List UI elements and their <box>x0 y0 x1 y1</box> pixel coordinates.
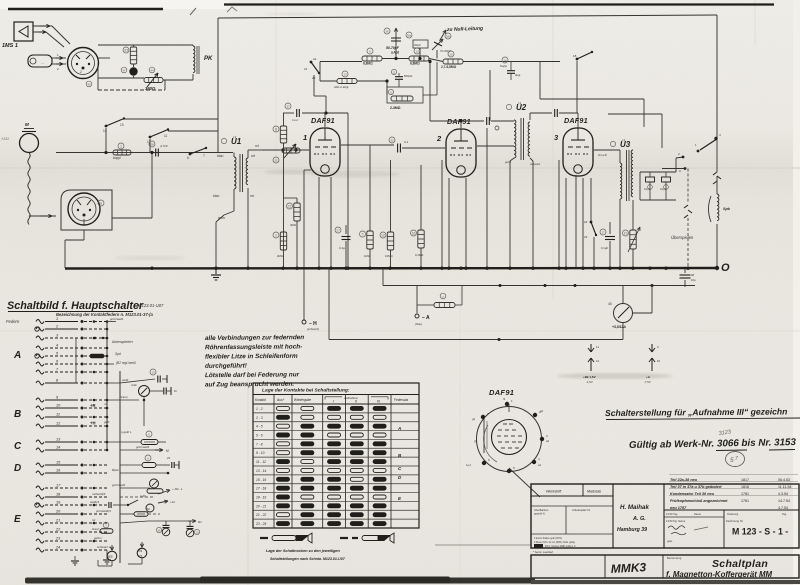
capacitor 37 grid cap <box>283 112 294 114</box>
svg-text:Aus*: Aus* <box>276 398 285 402</box>
connector plug P2 box <box>61 190 112 230</box>
svg-text:22: 22 <box>55 528 61 532</box>
svg-text:23 - 24: 23 - 24 <box>255 522 266 526</box>
svg-text:10: 10 <box>657 359 661 363</box>
svg-text:O: O <box>721 262 730 274</box>
svg-text:B: B <box>14 409 21 420</box>
svg-text:24: 24 <box>55 546 60 550</box>
ground symbol left <box>74 556 76 560</box>
svg-text:a1: a1 <box>538 463 542 467</box>
capacitor 36 trimmer <box>395 28 397 44</box>
svg-text:+3,5/12A: +3,5/12A <box>612 325 626 329</box>
revision history rows <box>670 478 791 510</box>
svg-text:PK: PK <box>204 56 213 62</box>
switch contact rows <box>35 317 107 552</box>
svg-text:0,1μF: 0,1μF <box>601 246 608 250</box>
svg-text:10: 10 <box>415 50 419 54</box>
svg-text:1MS 1: 1MS 1 <box>2 43 18 49</box>
svg-text:II: II <box>355 400 357 404</box>
svg-text:Ü3: Ü3 <box>620 140 631 149</box>
capacitor 28 <box>155 149 157 157</box>
svg-text:21: 21 <box>274 159 278 163</box>
svg-text:Lage der Schaltnocken zu den j: Lage der Schaltnocken zu den jeweiligen <box>266 549 341 553</box>
svg-text:+R: +R <box>90 403 95 408</box>
svg-text:+H: +H <box>90 421 95 426</box>
wire tube3 anode to U3 <box>594 149 620 151</box>
row13 resistor 6 <box>107 441 141 443</box>
svg-text:alle Verbindungen zur federnde: alle Verbindungen zur federnden <box>205 334 304 342</box>
switch S4 above tube1 <box>310 61 313 64</box>
sheet border top-left segment <box>8 8 163 11</box>
svg-text:0,1: 0,1 <box>404 140 409 144</box>
network top rail <box>98 44 193 46</box>
capacitor 47 electrolytic <box>129 67 137 75</box>
svg-text:geprüft N: geprüft N <box>534 512 545 516</box>
svg-text:(schwarz): (schwarz) <box>307 327 319 331</box>
svg-text:(B2 regl./weiß: (B2 regl./weiß <box>116 361 136 365</box>
capacitor 11 500pF <box>395 76 403 78</box>
wire tube1 anode row <box>325 112 348 114</box>
svg-text:12: 12 <box>596 359 600 363</box>
svg-text:4.7.54: 4.7.54 <box>778 506 788 510</box>
svg-text:D: D <box>14 463 21 474</box>
box 2-3M network <box>387 87 423 103</box>
svg-text:Änderung: Änderung <box>727 512 739 516</box>
svg-text:auf Zug beansprucht werden.: auf Zug beansprucht werden. <box>205 381 294 389</box>
capacitor 34 <box>649 172 651 177</box>
svg-text:6,8MΩ: 6,8MΩ <box>410 62 420 66</box>
wire box above tube3 <box>539 62 541 99</box>
svg-text:gelb L: gelb L <box>94 536 103 540</box>
svg-text:schwarz L: schwarz L <box>97 545 111 549</box>
microphone box 1MS1 <box>14 22 33 41</box>
wire from 1MS1 to connector <box>33 25 52 27</box>
svg-text:Name: Name <box>694 512 701 516</box>
svg-text:26: 26 <box>503 59 507 63</box>
vertical connector x107 <box>106 322 108 451</box>
svg-text:blau: blau <box>217 154 224 158</box>
svg-text:11 - 12: 11 - 12 <box>256 460 266 464</box>
svg-text:20: 20 <box>449 53 453 57</box>
svg-text:19: 19 <box>624 232 628 236</box>
svg-text:21: 21 <box>304 67 308 71</box>
svg-text:45: 45 <box>87 83 91 87</box>
cable to plug arrow <box>29 215 56 217</box>
resistor 2 koppl <box>113 150 131 155</box>
wire top loop vertical left <box>217 18 219 153</box>
svg-text:Schaltstellungen nach Schnia.: Schaltstellungen nach Schnia. M123.01-U0… <box>270 557 346 561</box>
wire plug P2 to ground bus <box>83 230 85 240</box>
resistor 7 grid leak <box>367 231 373 249</box>
wire from resistor row down x430 <box>429 62 431 122</box>
svg-text:13: 13 <box>151 371 155 375</box>
svg-text:M 123 - S - 1 -: M 123 - S - 1 - <box>732 527 788 537</box>
bus 2 below <box>383 285 695 287</box>
svg-text:A. G.: A. G. <box>632 516 646 522</box>
svg-text:4 - 5: 4 - 5 <box>256 425 263 429</box>
svg-text:R4: R4 <box>138 549 142 553</box>
svg-text:Spk: Spk <box>723 207 731 211</box>
wire contact 3 to U3 <box>662 168 684 170</box>
capacitor 38a 20pF <box>413 40 428 48</box>
wire tube1 top cap <box>324 113 326 127</box>
svg-text:Arbeitsplatz Nr: Arbeitsplatz Nr <box>572 508 590 512</box>
svg-text:grün/weiß(3: grün/weiß(3 <box>96 509 111 513</box>
wire row9 down to row12 <box>143 400 145 426</box>
svg-text:15 - 16: 15 - 16 <box>256 478 266 482</box>
svg-text:37: 37 <box>286 105 290 109</box>
svg-text:20 - 21: 20 - 21 <box>255 504 266 508</box>
microphone capsule <box>28 55 52 67</box>
transformer U3 <box>598 140 633 201</box>
svg-text:3 dunkl. Stellen gelb (2071): 3 dunkl. Stellen gelb (2071) <box>534 537 562 540</box>
wire plug P2 to signal rail <box>112 217 152 219</box>
svg-text:M: M <box>25 122 29 127</box>
svg-text:Maßstab: Maßstab <box>587 490 601 494</box>
tube2 grid cap capacitor <box>430 120 484 122</box>
svg-text:23: 23 <box>55 537 61 541</box>
svg-text:braun: braun <box>92 527 100 531</box>
tube Roe3 DAF91 <box>554 116 593 176</box>
svg-text:rot: rot <box>92 518 95 522</box>
svg-text:7: 7 <box>735 456 738 462</box>
wire speaker to O terminal <box>716 224 718 268</box>
svg-text:21 - 22: 21 - 22 <box>255 513 266 517</box>
svg-text:11: 11 <box>56 413 60 417</box>
svg-text:Tag: Tag <box>782 512 787 516</box>
svg-text:+Bk 1,5V: +Bk 1,5V <box>583 375 596 379</box>
meter lamp 40 <box>622 286 624 304</box>
svg-text:12: 12 <box>381 234 385 238</box>
svg-text:volle: volle <box>131 383 137 387</box>
svg-text:13 - 14: 13 - 14 <box>256 469 266 473</box>
bus O main ground rail <box>65 267 717 270</box>
row15 resistor <box>120 464 142 466</box>
output switch S7 <box>714 137 717 140</box>
svg-text:2-3MΩ: 2-3MΩ <box>390 106 401 110</box>
svg-text:MMK3: MMK3 <box>610 560 646 576</box>
svg-text:18: 18 <box>573 54 577 58</box>
svg-text:– A: – A <box>422 315 430 321</box>
row14 arrow M <box>120 449 160 451</box>
svg-text:10MΩ: 10MΩ <box>385 254 393 258</box>
wire S4 to grid cap <box>313 75 315 96</box>
shielded cable wavy <box>28 153 30 225</box>
svg-text:1761: 1761 <box>741 499 749 503</box>
fold line vertical <box>552 0 554 300</box>
connector plug P1 <box>68 48 99 79</box>
switch S1 contacts 14 13 <box>105 125 108 128</box>
svg-text:Zchn. Nocken MMK gültig n.V.: Zchn. Nocken MMK gültig n.V. <box>545 545 576 548</box>
svg-text:38: 38 <box>691 273 695 277</box>
resistor 9 6.8M <box>362 56 382 61</box>
capacitor 27 <box>345 225 347 234</box>
svg-text:Zeichnung Nr: Zeichnung Nr <box>726 519 743 523</box>
svg-text:1: 1 <box>303 133 307 142</box>
battery box outline <box>328 268 330 340</box>
svg-text:4: 4 <box>56 344 58 348</box>
svg-text:14.53 Fig. Name: 14.53 Fig. Name <box>666 519 686 523</box>
network mid rail <box>98 77 144 79</box>
resistor 22 <box>294 203 300 221</box>
svg-text:7 - 8: 7 - 8 <box>256 442 263 446</box>
jack contacts pair 2 <box>651 344 653 352</box>
svg-text:38a: 38a <box>407 34 412 38</box>
svg-text:23: 23 <box>584 235 588 239</box>
svg-text:14.53 Tag: 14.53 Tag <box>666 512 678 516</box>
svg-text:braun: braun <box>120 395 128 399</box>
tube Roe2 DAF91 <box>436 117 476 177</box>
svg-text:7,5: 7,5 <box>138 554 143 558</box>
resistor R4 loop <box>137 548 147 558</box>
svg-text:DAF91: DAF91 <box>447 117 471 126</box>
svg-text:Lage der Kontakte bei Schaltst: Lage der Kontakte bei Schaltstellung: <box>262 388 350 394</box>
DAF91 socket diagram <box>466 397 550 497</box>
svg-text:* bezw. Leerlauf: * bezw. Leerlauf <box>533 550 553 554</box>
svg-text:47: 47 <box>122 69 126 73</box>
svg-text:17 - 18: 17 - 18 <box>256 487 266 491</box>
svg-text:Spd: Spd <box>115 352 121 356</box>
resistor 12a <box>387 232 393 250</box>
potentiometer 360 Ohm <box>144 78 163 83</box>
svg-text:24: 24 <box>584 220 588 224</box>
svg-text:I: I <box>333 400 334 404</box>
svg-text:10μ: 10μ <box>691 278 696 282</box>
svg-text:4MΩ: 4MΩ <box>290 223 296 227</box>
svg-text:2 - 3: 2 - 3 <box>255 416 263 420</box>
wire U1 secondary to grid <box>247 150 249 158</box>
contact table <box>253 383 419 528</box>
svg-text:11: 11 <box>164 134 168 138</box>
wire tube2 filaments <box>448 178 450 268</box>
svg-text:†131: †131 <box>1 137 9 141</box>
jack contacts pair 1 <box>590 344 592 352</box>
wire x559 <box>558 160 560 268</box>
capacitor 35 <box>665 172 667 177</box>
wire x442 screen tube2 <box>441 160 443 268</box>
svg-text:28: 28 <box>150 143 154 147</box>
wire U3 left coil bottom <box>619 199 621 268</box>
check mark pencil <box>227 7 237 12</box>
svg-text:2: 2 <box>80 70 82 74</box>
connector plug P2 <box>68 193 100 225</box>
svg-text:überspielen: überspielen <box>112 339 133 344</box>
resistor 16 <box>418 230 424 248</box>
svg-text:R3: R3 <box>108 555 112 559</box>
svg-text:22: 22 <box>288 205 292 209</box>
svg-text:500pF: 500pF <box>404 74 413 78</box>
svg-text:...: ... <box>41 61 44 65</box>
svg-text:M: M <box>166 449 169 453</box>
svg-text:11: 11 <box>596 345 599 349</box>
resistor R3 loop <box>107 551 117 561</box>
svg-text:-7,5V: -7,5V <box>644 380 651 384</box>
svg-text:DAF91: DAF91 <box>489 388 514 397</box>
tube Roe1 DAF91 <box>303 116 340 176</box>
title block left cells <box>531 495 613 497</box>
wire tube1 filament left <box>318 177 320 268</box>
svg-text:9 - 10: 9 - 10 <box>256 451 265 455</box>
svg-text:0,2MΩ: 0,2MΩ <box>415 253 423 257</box>
svg-text:A: A <box>13 350 21 361</box>
svg-text:u.gelb L: u.gelb L <box>121 430 132 434</box>
svg-text:abgl: abgl <box>515 73 521 77</box>
svg-text:31: 31 <box>99 202 103 206</box>
svg-text:6,8MΩ: 6,8MΩ <box>363 62 373 66</box>
wire switch S1 to loop <box>124 118 218 120</box>
svg-text:20: 20 <box>55 510 61 514</box>
svg-text:Werkstoff: Werkstoff <box>546 490 562 494</box>
wire tube1 filament right <box>330 177 332 268</box>
resistor 33 <box>130 47 136 64</box>
resistor 1 cathode <box>280 232 286 250</box>
svg-text:Schalterstellung für „Aufnahme: Schalterstellung für „Aufnahme III“ geze… <box>605 406 788 418</box>
svg-text:R1: R1 <box>198 520 202 524</box>
svg-text:Aufnahme: Aufnahme <box>343 396 358 400</box>
svg-text:a.Nat: a.Nat <box>391 51 400 55</box>
svg-text:5 - 6: 5 - 6 <box>256 434 263 438</box>
wire top loop horizontal <box>218 15 717 18</box>
row1 label <box>107 321 116 323</box>
svg-text:4,7nF: 4,7nF <box>160 144 168 148</box>
svg-text:13: 13 <box>343 73 347 77</box>
svg-text:Abh.2 abgl: Abh.2 abgl <box>334 85 349 89</box>
wire caps to switch contact <box>675 158 677 172</box>
svg-text:(blau): (blau) <box>415 322 422 326</box>
svg-text:2 Diese Zchn. ist nur (2001) T: 2 Diese Zchn. ist nur (2001) Teilw. gült… <box>534 541 575 544</box>
sheet border top main <box>224 3 774 5</box>
potentiometer 21 <box>282 148 300 153</box>
wire screen vertical x348 <box>347 147 349 268</box>
wire top loop vertical right <box>716 15 718 139</box>
wire U2 primary bottom <box>510 158 514 161</box>
capsule leads <box>52 57 66 59</box>
svg-text:Facd: Facd <box>292 118 299 122</box>
title block frame <box>531 484 799 548</box>
svg-text:DAF91: DAF91 <box>564 116 588 125</box>
bottom title strip frame <box>531 555 799 578</box>
svg-text:gepr.: gepr. <box>667 539 673 543</box>
svg-text:32: 32 <box>390 139 394 143</box>
wire null-leitung arrow <box>440 30 446 40</box>
svg-text:C: C <box>14 441 22 452</box>
table legend symbols <box>260 537 268 539</box>
svg-text:50-70pF: 50-70pF <box>386 46 400 50</box>
svg-text:E: E <box>14 514 21 525</box>
svg-text:neu 1757: neu 1757 <box>670 506 687 510</box>
ground symbol <box>215 268 217 274</box>
svg-text:g3: g3 <box>474 439 478 443</box>
svg-text:Lötstelle darf bei Federung nu: Lötstelle darf bei Federung nur <box>205 371 300 379</box>
fold line horizontal <box>0 167 800 169</box>
svg-text:16: 16 <box>412 232 416 236</box>
svg-text:14.7.54: 14.7.54 <box>778 499 790 503</box>
svg-text:7: 7 <box>362 233 364 237</box>
capacitor 30 below bus <box>684 268 686 273</box>
faint line left of title block <box>435 544 531 546</box>
svg-text:A: A <box>397 426 401 431</box>
resistor 46 on -A branch <box>416 304 418 306</box>
svg-text:8: 8 <box>275 128 277 132</box>
svg-text:Hamburg 39: Hamburg 39 <box>617 527 647 533</box>
U3 secondary network box <box>640 171 676 173</box>
svg-text:a2: a2 <box>546 439 550 443</box>
svg-text:27: 27 <box>336 229 340 233</box>
svg-text:f. Magnetton-Koffergerät MM: f. Magnetton-Koffergerät MM <box>666 570 772 579</box>
svg-text:38b: 38b <box>446 35 451 39</box>
svg-text:33: 33 <box>124 49 128 53</box>
svg-text:schwarz: schwarz <box>530 162 541 166</box>
svg-text:14: 14 <box>56 446 60 450</box>
svg-text:weiß: weiß <box>122 378 129 382</box>
svg-text:Röhrenfassungsleiste mit hoch-: Röhrenfassungsleiste mit hoch- <box>205 343 302 351</box>
svg-text:Bezeichnung der Kontaktfedern: Bezeichnung der Kontaktfedern n. M123.01… <box>56 312 153 317</box>
svg-text:44: 44 <box>150 69 154 73</box>
svg-text:Prüfkopfanschluß angezeichnet: Prüfkopfanschluß angezeichnet <box>670 499 728 503</box>
note text block <box>205 334 304 388</box>
svg-text:5: 5 <box>730 457 734 464</box>
svg-text:+12: +12 <box>170 500 175 504</box>
vertical connector x120 <box>119 371 121 563</box>
network bottom rail <box>98 89 165 91</box>
svg-text:7: 7 <box>203 154 205 158</box>
svg-text:0,1μ: 0,1μ <box>339 246 345 250</box>
wire tube3 filaments <box>565 178 567 268</box>
svg-text:Schaltplan: Schaltplan <box>712 558 768 570</box>
lamp row9 <box>139 386 150 397</box>
resistor 13 abgl <box>337 79 357 84</box>
switch S6 24 23 <box>590 178 592 221</box>
svg-text:2,7-6,8MΩ: 2,7-6,8MΩ <box>441 65 457 69</box>
svg-text:2a: 2a <box>313 57 317 61</box>
svg-text:f+(1: f+(1 <box>466 463 471 467</box>
svg-text:g2: g2 <box>540 409 544 413</box>
svg-text:+ R2...L: + R2...L <box>172 487 183 491</box>
capacitor 32 coupling <box>397 144 399 153</box>
capacitor 17 <box>609 222 611 234</box>
terminal -H <box>302 320 306 324</box>
svg-text:Oberflächen-: Oberflächen- <box>534 508 549 512</box>
resistor 20 2.7-6.8M <box>443 59 463 64</box>
vertical connector x76 <box>75 338 77 383</box>
svg-text:grün/weiß: grün/weiß <box>110 317 123 321</box>
ueberspielen dashed wire <box>687 169 689 204</box>
switch S3 contacts 6 7 <box>189 153 192 156</box>
microphone M <box>20 134 39 153</box>
svg-text:blau: blau <box>213 194 220 198</box>
title block right cells <box>664 509 799 511</box>
speaker Spk <box>717 194 719 221</box>
wire tube2 anode to U2 <box>477 145 514 147</box>
svg-text:Kontakt: Kontakt <box>255 398 266 402</box>
svg-text:rot: rot <box>104 402 107 406</box>
wire U1 secondary bottom <box>247 188 249 268</box>
capacitor 38b trimmer <box>432 39 443 50</box>
resistor 10 6.8M <box>409 56 429 61</box>
svg-text:36: 36 <box>385 30 389 34</box>
svg-text:1MΩ: 1MΩ <box>364 254 370 258</box>
switch S5 <box>576 58 579 61</box>
switch S2 contacts 12 11 <box>149 136 152 139</box>
revision row separators <box>669 474 798 476</box>
svg-text:23: 23 <box>167 456 171 460</box>
anode wire to coupling cap <box>341 144 394 146</box>
svg-text:rot: rot <box>255 144 259 148</box>
svg-text:Schaltbild f. Hauptschalter: Schaltbild f. Hauptschalter <box>7 300 144 312</box>
wire U1 primary bottom <box>233 189 235 211</box>
svg-text:Federsatz: Federsatz <box>394 398 409 402</box>
svg-text:Ü2: Ü2 <box>516 103 527 112</box>
